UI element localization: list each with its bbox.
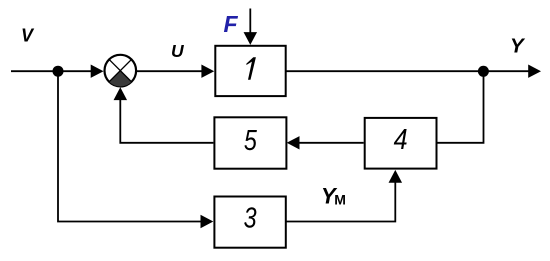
block 4 — [365, 118, 437, 169]
arrowhead into summer — [91, 65, 104, 78]
svg-text:3: 3 — [244, 203, 257, 235]
svg-text:F: F — [224, 11, 239, 37]
arrowhead up into block 4 — [389, 170, 403, 183]
wire output down to block 4 — [438, 71, 484, 143]
arrowhead into block 3 — [201, 215, 214, 228]
svg-text:4: 4 — [394, 124, 408, 156]
block 1 — [215, 46, 285, 96]
wire block5 to summer — [120, 94, 213, 143]
wire block1 to output — [287, 70, 536, 72]
arrowhead into block 5 — [287, 136, 300, 149]
svg-text:U: U — [171, 41, 184, 61]
wire block3 up to block 4 — [286, 177, 395, 222]
wire block4 to block5 — [295, 142, 364, 144]
wire V node down to block 3 — [58, 71, 206, 221]
svg-text:Y: Y — [510, 35, 526, 58]
summing junction — [105, 55, 137, 87]
output arrowhead Y — [528, 65, 541, 78]
arrowhead into block 1 — [201, 65, 214, 78]
node input branch dot — [53, 66, 64, 77]
wire input V horizontal — [11, 70, 97, 72]
block 3 — [214, 197, 285, 248]
wire summer to block 1 — [136, 70, 206, 72]
arrowhead F into block 1 top — [244, 32, 257, 45]
arrowhead up into summer — [114, 87, 128, 100]
svg-text:V: V — [21, 25, 35, 45]
node output branch dot — [478, 66, 489, 77]
wire F arrow down — [249, 9, 251, 35]
svg-text:5: 5 — [244, 125, 258, 157]
block 5 — [214, 117, 286, 168]
svg-text:YM: YM — [321, 183, 346, 208]
